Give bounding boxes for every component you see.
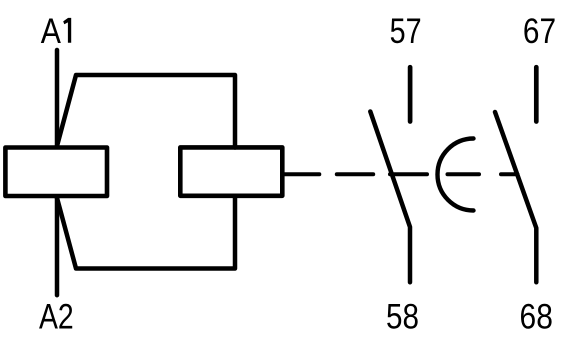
svg-text:57: 57 — [390, 11, 422, 51]
svg-text:67: 67 — [523, 11, 556, 51]
svg-text:68: 68 — [520, 296, 553, 336]
svg-text:A2: A2 — [39, 296, 74, 336]
svg-text:58: 58 — [386, 296, 419, 336]
svg-text:A: A — [41, 11, 61, 51]
